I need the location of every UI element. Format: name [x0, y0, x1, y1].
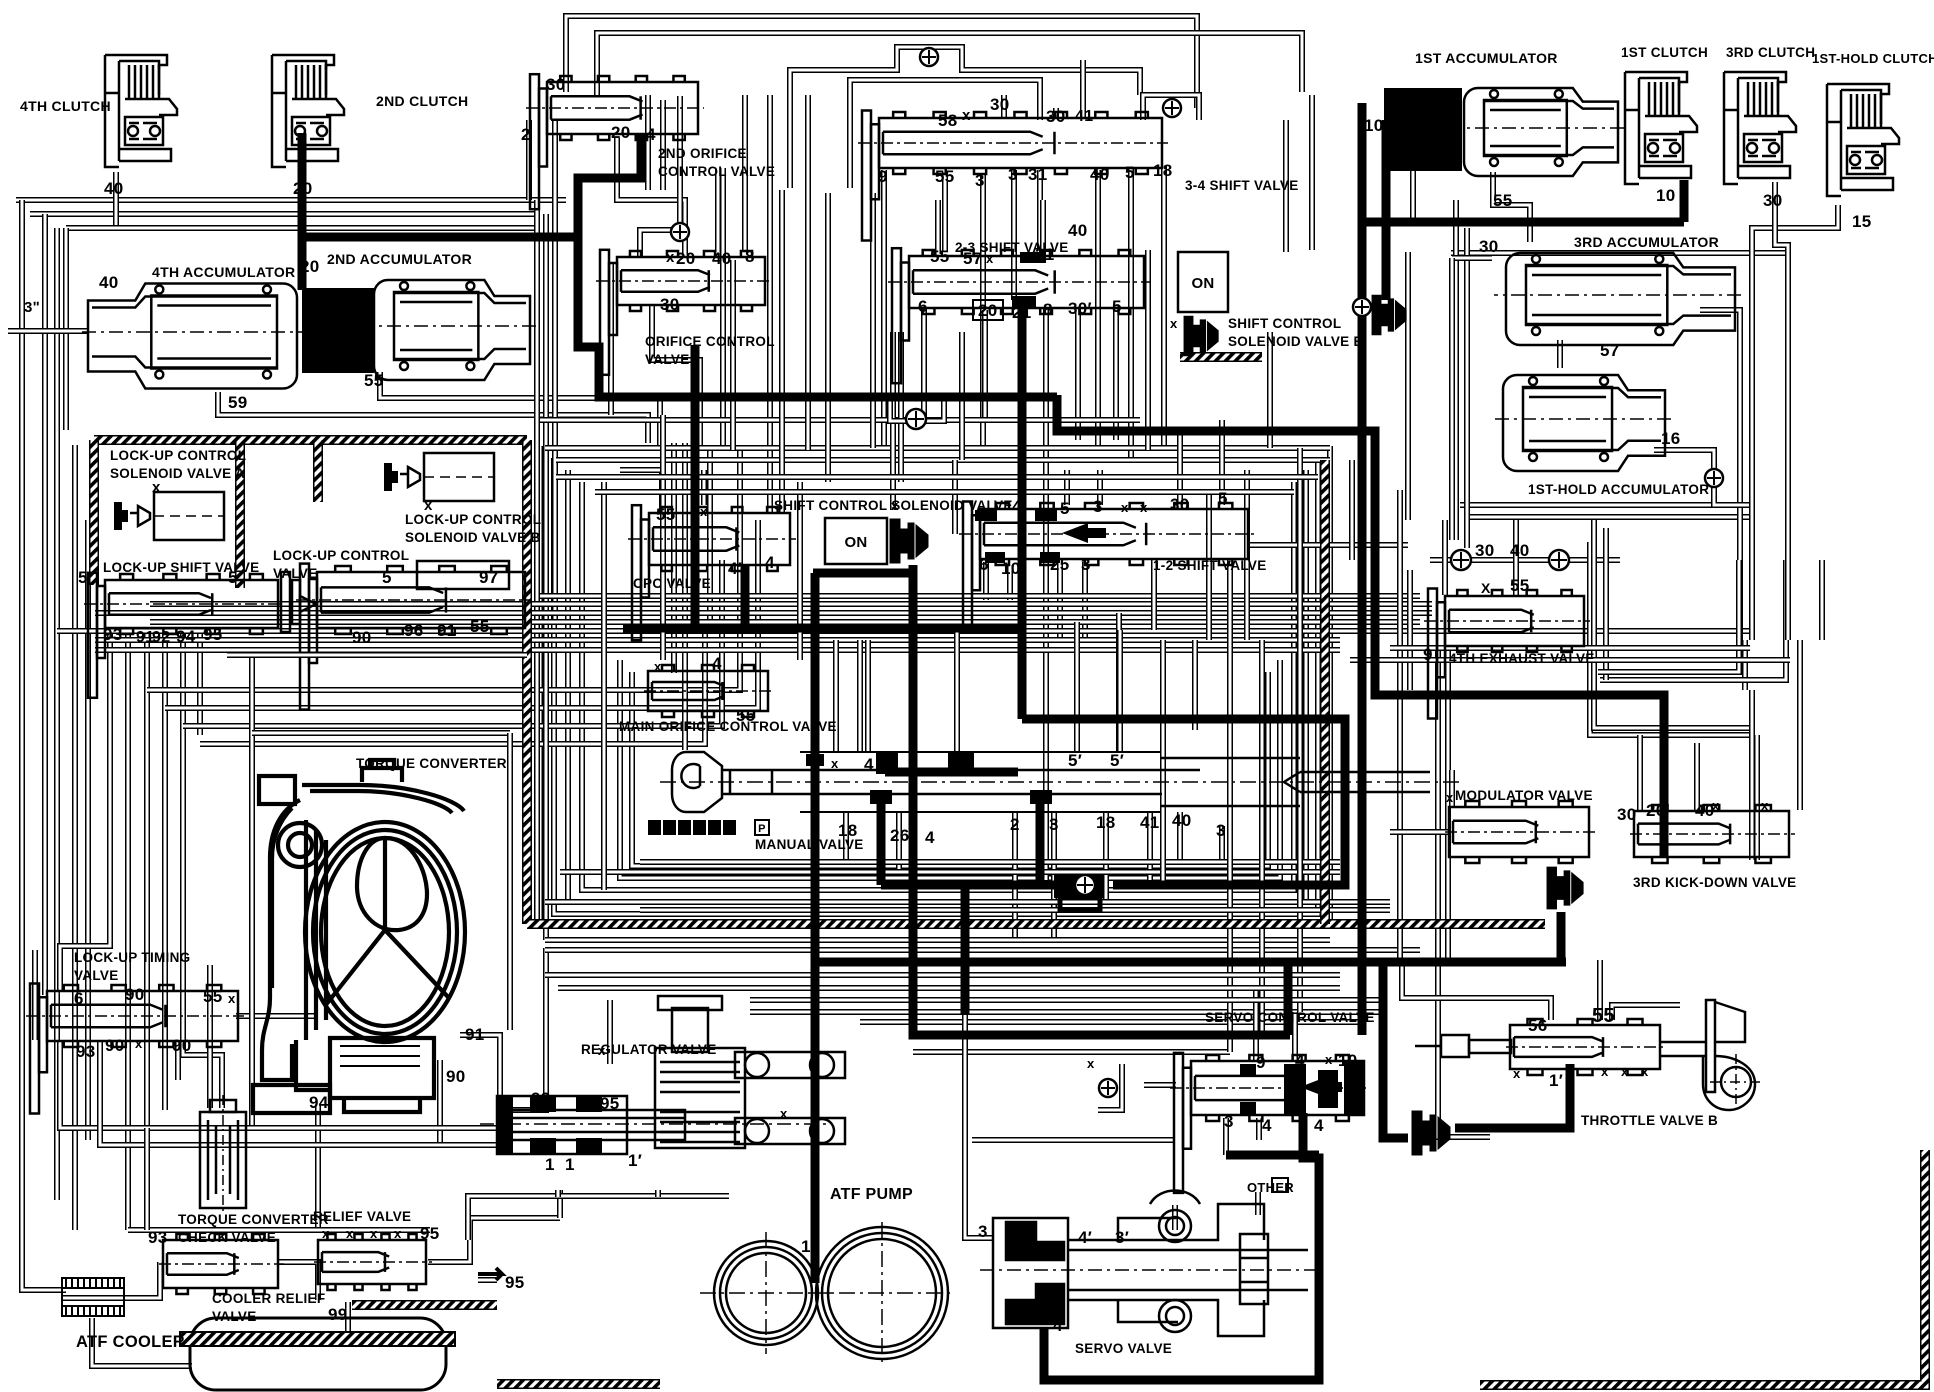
svg-text:x: x — [1446, 790, 1454, 805]
svg-text:40: 40 — [104, 179, 124, 198]
svg-text:93: 93 — [103, 625, 123, 644]
wire: vx1247 — [1244, 470, 1250, 640]
svg-text:x: x — [780, 1106, 788, 1121]
wire: check valve out — [278, 1262, 318, 1300]
wire: v1300 — [1297, 448, 1303, 1012]
check valve: near solenoid B — [1353, 298, 1371, 316]
wire: vx1312 — [1309, 95, 1315, 250]
wire: corridor B v6 — [755, 520, 761, 700]
valve: SERVO CONTROL VALVE — [1170, 1053, 1370, 1193]
wire: 3rd accum to 1st-hold — [1557, 340, 1563, 368]
wire: vx955 — [952, 460, 958, 534]
svg-text:x: x — [598, 1043, 606, 1058]
wire: long bus y604 — [150, 601, 1432, 607]
wire: v1822 — [1819, 560, 1825, 640]
wire: vx1270 — [1267, 332, 1273, 448]
wire: vx648 top — [645, 95, 651, 190]
wire: left bundle v3 — [125, 628, 131, 1230]
wire: 1-2 sv port 3 up — [1097, 470, 1103, 505]
svg-text:18: 18 — [1153, 161, 1173, 180]
accumulator: 1ST ACCUMULATOR charged chamber (solid fill) — [1384, 88, 1462, 171]
wire: ocv left — [608, 262, 614, 415]
wire: ocv top loop — [640, 96, 680, 258]
wire: cpc x port — [701, 470, 707, 505]
svg-text:2ND ORIFICE: 2ND ORIFICE — [658, 146, 747, 161]
wire: v1262 — [1259, 640, 1265, 1035]
svg-text:30: 30 — [1617, 805, 1637, 824]
wire: tc check feed — [183, 628, 222, 1108]
wire thick: to throttle solenoid — [1383, 962, 1408, 1138]
wire: throttle 56 feed — [1402, 965, 1551, 1020]
svg-text:1ST CLUTCH: 1ST CLUTCH — [1621, 45, 1708, 60]
wire: left top bus B — [30, 211, 540, 217]
svg-text:x: x — [1087, 1056, 1095, 1071]
svg-text:SERVO CONTROL VALVE: SERVO CONTROL VALVE — [1205, 1010, 1375, 1025]
svg-text:x: x — [394, 1226, 402, 1241]
wire: servo top port — [1172, 1205, 1178, 1230]
wire: servo cv left feed — [1144, 1082, 1176, 1088]
wire: vx1195 — [1192, 640, 1198, 730]
wire: right top bus — [1451, 250, 1786, 256]
svg-text:x: x — [346, 1226, 354, 1241]
svg-text:x: x — [1325, 1052, 1333, 1067]
wire: other port — [1255, 1192, 1261, 1215]
svg-text:93: 93 — [148, 1228, 168, 1247]
svg-text:18: 18 — [838, 821, 858, 840]
svg-text:41: 41 — [1075, 108, 1093, 125]
wire: mv port 40 down — [1177, 812, 1183, 862]
wire: 1-2 sv port 5b up — [1219, 420, 1225, 505]
svg-text:57: 57 — [1600, 341, 1620, 360]
svg-text:1: 1 — [801, 1237, 811, 1256]
wire thick: solenoid A base bar — [813, 569, 915, 578]
clutch: 3RD CLUTCH — [1724, 72, 1796, 184]
svg-text:LOCK-UP CONTROL: LOCK-UP CONTROL — [405, 512, 541, 527]
svg-text:4: 4 — [925, 828, 935, 847]
wire: vx808 — [805, 95, 811, 450]
wire: 2nd accumulator line 59 — [218, 392, 648, 443]
svg-text:25: 25 — [1050, 555, 1070, 574]
svg-text:55: 55 — [930, 247, 950, 266]
svg-text:1-2 SHIFT VALVE: 1-2 SHIFT VALVE — [1153, 558, 1267, 573]
wire: tc down — [315, 1105, 321, 1228]
svg-text:5′: 5′ — [1110, 751, 1124, 770]
wire: 4th exhaust top bus — [1430, 557, 1620, 563]
solenoid: modulator — [1547, 867, 1583, 909]
wire thick: bus y628 — [623, 624, 1026, 633]
wire: mv port 3b down — [1219, 826, 1225, 862]
svg-text:30: 30 — [546, 75, 566, 94]
svg-text:55: 55 — [736, 706, 756, 725]
wire: corridor B v7 — [767, 95, 773, 512]
wire: 3-4 sv port 3b — [1011, 170, 1017, 300]
wire: v1448 — [1445, 650, 1451, 960]
clutch: 2ND CLUTCH — [272, 55, 344, 167]
clutch: 1ST-HOLD CLUTCH — [1827, 84, 1899, 196]
wire: tc box left — [249, 648, 255, 1130]
wire: kick-down 40 drop — [1694, 743, 1700, 812]
valve: 3RD KICK-DOWN VALVE — [1630, 805, 1795, 863]
svg-text:CHECK VALVE: CHECK VALVE — [178, 1230, 276, 1245]
svg-text:1′: 1′ — [628, 1151, 642, 1170]
svg-text:ATF PUMP: ATF PUMP — [830, 1186, 913, 1203]
wire: vx901 — [898, 332, 904, 482]
wire: accumulator box left — [63, 228, 69, 430]
wire: vx1286 — [1283, 120, 1289, 252]
wire: mv port 26 down — [896, 812, 902, 872]
svg-text:4: 4 — [1295, 1051, 1305, 1070]
svg-text:3: 3 — [1216, 821, 1226, 840]
solenoid: SHIFT CONTROL SOLENOID VALVE A (ON) — [825, 518, 887, 564]
wire: kick-down port — [1754, 735, 1760, 860]
valve: THROTTLE VALVE B — [1506, 1019, 1666, 1075]
svg-text:10: 10 — [1656, 186, 1676, 205]
svg-text:LOCK-UP CONTROL: LOCK-UP CONTROL — [273, 548, 409, 563]
check valve: top right loop — [1163, 99, 1181, 117]
wire: 3-4 sv port 9 — [881, 170, 887, 448]
wire: mv port 5' up b — [1116, 613, 1122, 752]
wire: corridor B v3 — [682, 443, 688, 750]
svg-text:LOCK-UP CONTROL: LOCK-UP CONTROL — [110, 448, 246, 463]
wire: 1st-hold accum out — [1654, 450, 1748, 505]
wire: servo cv bypass — [1098, 1064, 1122, 1110]
solenoid: SHIFT CONTROL SOLENOID VALVE B (ON) — [1178, 252, 1228, 312]
svg-text:3RD KICK-DOWN VALVE: 3RD KICK-DOWN VALVE — [1633, 875, 1796, 890]
wire: bus y950 — [545, 947, 1420, 953]
svg-text:90: 90 — [172, 1036, 192, 1055]
wire: top bus 2 — [597, 33, 1302, 96]
wire: top loop with check valve — [790, 47, 1140, 188]
svg-text:Ⅲ: Ⅲ — [696, 823, 704, 835]
svg-text:90: 90 — [105, 1036, 125, 1055]
valve: 3-4 SHIFT VALVE — [858, 111, 1168, 241]
svg-text:SHIFT CONTROL: SHIFT CONTROL — [1228, 316, 1341, 331]
wire: 2-3 sv port 5 — [1113, 305, 1119, 440]
wire: central box 3 — [568, 470, 1306, 902]
svg-text:4: 4 — [1012, 497, 1022, 516]
check valve: y885 — [1075, 875, 1095, 895]
svg-text:TORQUE CONVERTER: TORQUE CONVERTER — [356, 756, 507, 771]
wire thick: 1st clutch drop — [1680, 180, 1689, 222]
solenoid armature A — [890, 519, 928, 563]
svg-text:3: 3 — [1093, 497, 1103, 516]
svg-text:30′: 30′ — [1068, 299, 1092, 318]
svg-text:LOCK-UP TIMING: LOCK-UP TIMING — [74, 950, 190, 965]
wire: main ocv left port — [671, 443, 677, 673]
svg-text:91: 91 — [465, 1025, 485, 1044]
wire: 3rd accum right out — [1700, 310, 1740, 640]
wire: 2nd accumulator port 55 — [380, 372, 660, 450]
wire: bus y1022 — [860, 1019, 1362, 1025]
wire: v1606 — [1603, 528, 1609, 680]
wire: mv port 3 down — [1051, 812, 1057, 940]
valve: ORIFICE CONTROL VALVE — [596, 250, 771, 375]
wire thick: 1st accum to 1st clutch — [1362, 218, 1684, 227]
1-2 shift valve dark ports — [975, 510, 997, 521]
flow arrow in servo control valve — [1300, 1077, 1326, 1097]
wire thick: 2nd clutch to accumulator — [298, 133, 307, 290]
svg-text:20: 20 — [1646, 801, 1666, 820]
solenoid: shift control B actuator — [1372, 295, 1406, 335]
wire: right box left edge — [1405, 252, 1411, 520]
wire: left vertical 2 — [54, 228, 60, 1200]
svg-text:MODULATOR VALVE: MODULATOR VALVE — [1455, 788, 1593, 803]
svg-text:4: 4 — [712, 654, 722, 673]
svg-text:3RD ACCUMULATOR: 3RD ACCUMULATOR — [1574, 234, 1719, 250]
svg-text:CONTROL VALVE: CONTROL VALVE — [658, 164, 775, 179]
wire: corridor A v2 — [543, 214, 549, 940]
wire: 3-4 sv port 30 top — [1001, 95, 1007, 118]
wire: corridor B v1 — [660, 100, 666, 190]
wire thick: v965 — [961, 885, 970, 1014]
servo valve — [980, 1191, 1320, 1337]
svg-text:ORIFICE CONTROL: ORIFICE CONTROL — [645, 334, 775, 349]
svg-text:58: 58 — [938, 111, 958, 130]
wire: regulator top — [607, 1000, 613, 1064]
svg-text:40: 40 — [1090, 165, 1110, 184]
flow arrow in 1-2 shift valve — [1062, 523, 1088, 543]
wire: hatched cooler line — [352, 1300, 497, 1310]
svg-text:4′: 4′ — [1078, 1228, 1092, 1247]
wire: v1352 — [1349, 460, 1355, 560]
wire: lock-up box hatched right — [522, 440, 532, 924]
wire: timing valve port 90b — [175, 1042, 181, 1080]
wire: vx800 — [797, 482, 803, 660]
wire: 2-3 sv port 20 — [982, 310, 988, 418]
wire: vx147b — [144, 1128, 150, 1230]
wire: 3-4 sv port 31 — [1037, 170, 1043, 250]
wire: left bundle v2 — [85, 520, 91, 1140]
svg-text:3: 3 — [1224, 1112, 1234, 1131]
wire: v1452 — [1449, 258, 1455, 540]
wire: left bundle v1 — [72, 445, 78, 1230]
svg-text:R: R — [725, 823, 733, 835]
wire: manual valve box outer — [620, 660, 1280, 878]
wire: 2nd ocv port 2 — [526, 120, 532, 200]
wire: 4th exhaust port 9 down — [1438, 650, 1490, 1137]
arrow 95 — [478, 1268, 502, 1280]
wire: vx1120 — [1117, 630, 1123, 752]
wire: left bundle v4 — [144, 628, 150, 1128]
wire: bus y988 — [558, 985, 1340, 991]
wire: v1752 — [1749, 690, 1755, 860]
wire: ocv port 30 — [652, 305, 700, 450]
wire: regulator bottom — [557, 1190, 563, 1218]
wire: mid bus y448 — [545, 445, 1330, 451]
wire: cooler 99 stub — [345, 1302, 351, 1333]
wire: 3-4 sv port 5 — [1128, 167, 1134, 460]
svg-text:COOLER RELIEF: COOLER RELIEF — [212, 1291, 325, 1306]
svg-text:10: 10 — [1338, 1051, 1358, 1070]
wire: bus y492 — [595, 489, 1294, 495]
wire: 3-4 sv port 3a — [980, 174, 986, 448]
wire: regulator drain stub 2 — [655, 1190, 661, 1197]
wire: pump suction bus — [468, 1196, 729, 1240]
wire: feed to regulator — [497, 948, 546, 1110]
check valve: 4th exhaust b — [1549, 550, 1569, 570]
throttle valve B adjusting bolt — [1415, 1035, 1511, 1057]
wire: servo cv port 4 down — [1256, 1118, 1262, 1140]
wire: tc box top — [252, 730, 510, 736]
heat exchanger: cooler inlet — [62, 1278, 124, 1316]
wire: vx1148 — [1145, 250, 1151, 450]
wire: v1163 — [1160, 640, 1166, 885]
wire: long bus y631 — [57, 628, 1750, 634]
svg-text:x: x — [1170, 316, 1178, 331]
wire thick: y885 to y719 — [1022, 719, 1345, 885]
wire: mid-left bus 2 — [165, 520, 758, 708]
svg-text:ON: ON — [844, 534, 867, 551]
svg-text:OTHER: OTHER — [1247, 1180, 1294, 1195]
solenoid: throttle feed — [1412, 1111, 1450, 1155]
svg-text:x: x — [1641, 1064, 1649, 1079]
svg-text:MAIN ORIFICE CONTROL VALVE: MAIN ORIFICE CONTROL VALVE — [619, 719, 837, 734]
svg-text:5: 5 — [1125, 163, 1135, 182]
accumulator: 2ND ACCUMULATOR — [362, 280, 536, 380]
svg-text:90: 90 — [352, 628, 372, 647]
wire thick: mv port 3 down — [1036, 792, 1045, 885]
svg-text:x: x — [370, 1226, 378, 1241]
svg-text:30: 30 — [1475, 541, 1495, 560]
svg-text:10: 10 — [1001, 559, 1021, 578]
svg-text:3: 3 — [1008, 165, 1018, 184]
wire: mv port 41 down — [1147, 812, 1153, 880]
wire: bus y862 — [640, 859, 1340, 865]
svg-text:TORQUE CONVERTER: TORQUE CONVERTER — [178, 1212, 329, 1227]
wire thick: 1st accum blob drop — [1382, 120, 1391, 300]
svg-text:6: 6 — [74, 989, 84, 1008]
wire: mv port 4 up — [865, 640, 871, 752]
valve: 4TH EXHAUST VALVE — [1424, 589, 1590, 719]
wire thick: staircase to y397 — [578, 133, 1057, 397]
wire: 2-3 sv port 8 — [1043, 308, 1049, 880]
svg-text:90: 90 — [125, 985, 145, 1004]
wire: left top bus A — [16, 197, 566, 203]
svg-text:CPC VALVE: CPC VALVE — [633, 576, 711, 591]
wire: hatched v1325 — [1320, 460, 1330, 924]
servo control valve dark blocks — [1240, 1062, 1364, 1116]
svg-text:VALVE: VALVE — [645, 352, 690, 367]
wire: bus y902 — [545, 899, 1390, 905]
valve: 2-3 SHIFT VALVE — [888, 248, 1150, 383]
svg-text:x: x — [1712, 798, 1720, 813]
wire: 95 arrow line — [478, 1277, 497, 1283]
wire: timing valve port 93 — [57, 1042, 63, 1080]
wire: far left vertical — [22, 200, 66, 1290]
svg-text:2: 2 — [666, 823, 672, 835]
pump: ATF PUMP — [700, 1222, 954, 1364]
svg-text:3: 3 — [978, 1222, 988, 1241]
wire: lock-up box hatched top — [94, 435, 527, 445]
valve: REGULATOR VALVE — [480, 996, 845, 1154]
wire: v1410 — [1407, 570, 1413, 690]
wire: regulator drain stub — [555, 1190, 561, 1197]
svg-text:ON: ON — [1191, 275, 1214, 292]
svg-text:x: x — [1601, 1064, 1609, 1079]
check valve: top loop — [920, 48, 938, 66]
svg-text:21: 21 — [1012, 303, 1032, 322]
svg-text:16: 16 — [1661, 429, 1681, 448]
svg-text:4: 4 — [646, 125, 656, 144]
svg-text:2: 2 — [521, 125, 531, 144]
valve: MANUAL VALVE — [660, 752, 1460, 812]
svg-text:56: 56 — [1528, 1016, 1548, 1035]
wire: bus y910 — [640, 907, 1390, 913]
svg-text:VALVE: VALVE — [273, 566, 318, 581]
wire thick: v1022 — [1018, 308, 1027, 719]
svg-text:30: 30 — [1170, 495, 1190, 514]
valve: CPC VALVE — [628, 505, 796, 640]
svg-text:96: 96 — [404, 621, 424, 640]
wire: vx873 — [870, 193, 876, 448]
svg-text:3: 3 — [1049, 815, 1059, 834]
wire thick: servo link — [1226, 1151, 1319, 1160]
svg-text:26: 26 — [890, 826, 910, 845]
wire: left bundle v5 — [162, 628, 168, 1110]
svg-text:4: 4 — [1314, 1116, 1324, 1135]
svg-text:31: 31 — [1028, 165, 1048, 184]
wire: long bus y613 — [95, 610, 1432, 616]
wire: bottom bus 1230 — [128, 1227, 430, 1233]
lock-up control valve 97 chamber — [417, 561, 509, 589]
svg-text:x: x — [1121, 500, 1129, 515]
manual valve gear position boxes — [648, 820, 661, 835]
wire: bus y975 — [545, 972, 1340, 978]
svg-text:5: 5 — [228, 568, 238, 587]
wire thick: v815 to pump — [811, 962, 820, 1283]
svg-text:5: 5 — [1060, 499, 1070, 518]
wire: 4th clutch port 40 — [113, 172, 119, 228]
svg-text:3RD CLUTCH: 3RD CLUTCH — [1726, 45, 1815, 60]
wire: right loop 2 — [1598, 560, 1739, 672]
valve: 1-2 SHIFT VALVE — [959, 502, 1254, 632]
svg-text:4TH EXHAUST VALVE: 4TH EXHAUST VALVE — [1449, 651, 1595, 666]
clutch: 1ST CLUTCH — [1625, 72, 1697, 184]
wire: kick-down 30 drop — [1637, 735, 1643, 812]
svg-text:20: 20 — [293, 179, 313, 198]
wire: ocv port 40 — [715, 168, 721, 252]
svg-text:95: 95 — [420, 1224, 440, 1243]
wire: 1-2 sv to right box — [1250, 542, 1408, 548]
wire: lock-up box hatched divider 2 — [313, 440, 323, 502]
wire: bus y1000 — [750, 997, 1383, 1003]
svg-text:9: 9 — [1256, 1053, 1266, 1072]
wire: loop under y397 — [890, 400, 944, 421]
wire: lock-up box hatched divider — [235, 440, 245, 588]
wire: mv port 5' up a — [1074, 622, 1080, 752]
manual valve dark ports — [806, 752, 1052, 804]
wire: accumulator box top — [66, 225, 540, 231]
wire: corridor A v4 — [525, 445, 531, 604]
solenoid valve: LOCK-UP CONTROL SOLENOID VALVE B — [376, 453, 494, 501]
wire: 1-2 sv port 30 up — [1177, 430, 1183, 505]
wire: 1-2 sv port 3 — [1082, 562, 1088, 640]
wire: 3rd accum port 30 — [1452, 255, 1492, 261]
wire thick: servo bracket — [1044, 1113, 1319, 1380]
wire: corridor A v1 — [534, 200, 540, 924]
wire: vx35 — [32, 950, 38, 1040]
svg-text:30: 30 — [990, 95, 1010, 114]
svg-text:N: N — [710, 823, 718, 835]
svg-text:3: 3 — [975, 171, 985, 190]
svg-text:92: 92 — [152, 629, 170, 646]
wire: 3-4 sv 30b top — [1053, 108, 1059, 118]
wire thick: manual valve bore — [885, 768, 1018, 777]
svg-text:x: x — [1621, 1064, 1629, 1079]
svg-text:55: 55 — [1592, 1005, 1615, 1027]
svg-text:55: 55 — [656, 505, 676, 524]
wire: timing valve to torque converter — [236, 1013, 318, 1019]
